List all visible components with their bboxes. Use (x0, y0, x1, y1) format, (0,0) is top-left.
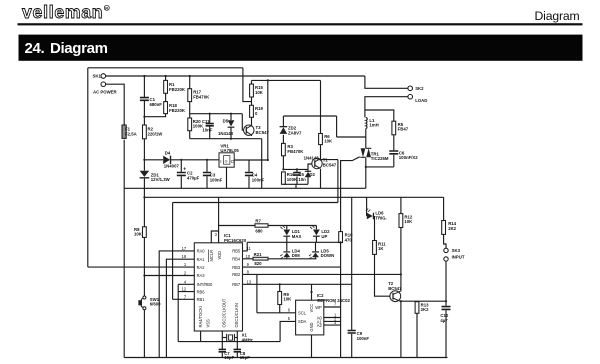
svg-text:VCC: VCC (309, 304, 314, 313)
wire: R3 bottom to base tie (282, 156, 284, 170)
junction C1 top on live wire (143, 75, 145, 77)
svg-text:+: + (183, 166, 186, 172)
wire: long bottom link y341.6 (178, 341, 280, 343)
wire: x340.6 vertical lower (340, 267, 342, 357)
junction R17 top on live wire (189, 75, 191, 77)
capacitor C9 plates (348, 331, 356, 334)
junction IC2 VCC riser (310, 291, 312, 293)
wire: R17 feed from top (189, 76, 191, 89)
svg-text:SK3: SK3 (452, 248, 461, 253)
wire: RB2 wire to T2 collector (243, 273, 401, 275)
svg-text:10: 10 (246, 254, 251, 259)
svg-text:680nF: 680nF (150, 102, 163, 107)
wire: neutral line y80.4 (252, 79, 321, 81)
resistor R14 (442, 221, 446, 235)
resistor R7 horizontal (255, 224, 268, 227)
wire: VDD rail y202.5 (173, 202, 338, 204)
wire: LD5 column (315, 242, 317, 258)
wire: snubber bottom tie y166.9 (366, 166, 394, 168)
svg-text:D4: D4 (165, 151, 171, 156)
svg-text:220/1W: 220/1W (148, 132, 164, 137)
wire: L1 bottom to TR1 (365, 129, 367, 149)
wire: C9 vertical (351, 197, 353, 329)
wire: RB6 stub (178, 291, 194, 293)
svg-text:F2,5A: F2,5A (125, 132, 137, 137)
wire: C3 riser (206, 160, 208, 172)
wire: C9 bottom (351, 334, 353, 358)
svg-text:SCL: SCL (298, 311, 307, 316)
svg-text:470: 470 (345, 237, 353, 242)
wire: R6 feed (320, 80, 322, 133)
junction +5 rail left end (143, 196, 145, 198)
svg-text:100nF: 100nF (252, 177, 265, 182)
svg-text:11: 11 (247, 246, 252, 251)
svg-text:D2: D2 (309, 172, 315, 177)
svg-text:6/600: 6/600 (150, 302, 161, 307)
capacitor C2 plates (177, 173, 186, 176)
wire: R14 feed (443, 197, 445, 220)
capacitor C6 plates (389, 151, 398, 154)
resistor R3 (282, 143, 286, 155)
resistor R8 (143, 227, 147, 238)
svg-text:18: 18 (182, 254, 187, 259)
svg-text:PIC16C620: PIC16C620 (224, 238, 247, 243)
wire: RA3 wire (144, 275, 194, 277)
junction T1 collector node (319, 159, 321, 161)
wire: ZD2 top tie y116 (283, 115, 336, 117)
wire: LD6 feed (366, 197, 368, 216)
junction +5 riser top (267, 79, 269, 81)
svg-text:RB4: RB4 (232, 257, 241, 262)
wire: supply wire y159.8 R2 node to VR1 in (144, 159, 163, 161)
wire: INT-RB6 tie and drop (177, 284, 179, 341)
capacitor C8 plates (234, 349, 241, 351)
wire: +5 rail y197.3 (144, 196, 443, 198)
svg-text:UA78L05: UA78L05 (220, 148, 239, 153)
svg-text:G: G (225, 159, 228, 163)
wire: LD1 column (286, 226, 288, 243)
wire: LED middle rail (247, 241, 340, 243)
wire: D5 top (230, 114, 232, 121)
svg-text:100K: 100K (287, 177, 298, 182)
wire: C11 bottom (209, 126, 211, 139)
capacitor C1 plates (140, 98, 149, 101)
junction R1 top on live wire (165, 75, 167, 77)
junction D5 top (230, 113, 232, 115)
svg-text:Diagram: Diagram (535, 9, 580, 23)
wire: ZD2 tie drop x336.6 (336, 116, 338, 137)
resistor R21 horizontal (253, 257, 268, 260)
wire: SW1 to bottom rail (143, 310, 145, 358)
junction C1/R18 tie (143, 116, 145, 118)
svg-text:100nF/X2: 100nF/X2 (399, 155, 418, 160)
velleman logo (22, 2, 109, 22)
wire: loop down to T3 collector node (243, 68, 252, 102)
wire: C5 bottom stub (296, 177, 298, 185)
wire: R7 wire y225.5 (219, 225, 255, 227)
wire: IC2 GND stub (311, 335, 313, 358)
junction D5 bottom on pulse rail (230, 138, 232, 140)
LED LD5 symbol (312, 253, 319, 258)
wire: IC2 VCC stub (311, 284, 313, 300)
junction RB2 wire at T2 collector (400, 273, 402, 275)
wire: tie C1/R18 y116.7 (144, 114, 165, 117)
svg-text:velleman: velleman (22, 2, 103, 22)
wire: WP stub (324, 306, 341, 308)
wire: T1 base tap (308, 164, 312, 169)
wire: ZD1 bottom to rail (143, 178, 145, 189)
wire: OSC1 line (236, 331, 238, 349)
junction RA3 tap on R8 line (143, 274, 145, 276)
wire: R5 to C6 (393, 135, 395, 151)
wire: RA1 wire (166, 259, 194, 357)
wire: R9 to SCL (279, 305, 281, 313)
wire: C3 bottom (206, 176, 208, 188)
resistor R17 (188, 89, 192, 102)
svg-text:RA1: RA1 (197, 257, 206, 262)
zener ZD1 symbol (140, 171, 150, 177)
junction C5 top (296, 168, 298, 170)
resistor R19 (250, 105, 254, 117)
svg-text:FB470K: FB470K (287, 149, 304, 154)
svg-text:1N4148: 1N4148 (304, 155, 320, 160)
wire: outer sense loop top (88, 67, 243, 69)
wire: RB1 pull vertical x172.6 (172, 203, 174, 300)
resistor R12 (399, 214, 403, 228)
svg-text:MAX: MAX (292, 234, 302, 239)
capacitor C4 plates (245, 173, 253, 176)
wire: R15 top stub (251, 80, 253, 84)
svg-text:FB220K: FB220K (169, 108, 186, 113)
wire: OSC1 below C8 (236, 353, 238, 358)
wire: C10 bottom (445, 310, 447, 357)
svg-text:680: 680 (255, 228, 263, 233)
resistor R15 (250, 84, 254, 97)
wire: A0 stub (324, 317, 341, 319)
svg-text:10K: 10K (324, 139, 333, 144)
inductor L1 coil (366, 117, 367, 128)
capacitor C5 plates (293, 173, 300, 176)
wire: top live wire y76 SK1 to corner (106, 75, 365, 77)
resistor R1 (164, 80, 168, 93)
svg-text:INPUT: INPUT (452, 255, 465, 260)
wire: T1 collector riser to VDD rail (337, 160, 339, 203)
wire: crystal right link (235, 337, 237, 339)
svg-text:UP: UP (321, 234, 327, 239)
capacitor C7 plates (219, 349, 226, 351)
diode D4 symbol (163, 156, 170, 164)
svg-text:RB7: RB7 (232, 282, 241, 287)
svg-text:12V/1.3W: 12V/1.3W (151, 177, 171, 182)
wire: ZD2 to R3 (282, 135, 284, 144)
wire: A1 stub (324, 320, 341, 322)
wire: C11 top (209, 114, 211, 123)
svg-text:SK2: SK2 (415, 86, 424, 91)
wire: SDA wire (280, 321, 296, 341)
svg-text:1mH: 1mH (369, 123, 378, 128)
svg-text:100nF: 100nF (357, 336, 370, 341)
svg-text:INT/RB0: INT/RB0 (197, 282, 213, 287)
wire: TR1 MT1 leg to common rail (365, 167, 367, 188)
wire: RA4 stub (200, 331, 202, 342)
svg-text:1K: 1K (378, 246, 384, 251)
junction C10 top / SK3 (445, 300, 447, 302)
svg-text:OSC2/CLKOUT: OSC2/CLKOUT (222, 298, 227, 327)
svg-text:DOWN: DOWN (321, 253, 335, 258)
svg-text:SK1: SK1 (93, 74, 102, 79)
svg-text:O: O (231, 159, 235, 164)
connector LOAD pin (408, 94, 413, 99)
wire: R14 to SK3 (444, 234, 446, 248)
junction TR1 MT1 node (365, 166, 367, 168)
svg-text:WP: WP (315, 305, 322, 310)
IC2 box (296, 300, 324, 335)
svg-text:15pF: 15pF (240, 355, 250, 360)
wire: R9 drop from RB7 wire (279, 284, 281, 291)
svg-text:24.: 24. (25, 40, 45, 57)
wire: D4 cathode to VR1 (171, 159, 220, 161)
wire: VDD drop (218, 197, 220, 243)
wire: bottom rail (124, 357, 447, 359)
LED LD1 symbol (283, 230, 290, 236)
wire: VR1 ground pin (226, 167, 228, 188)
wire: +5 rail tap from R8 line (143, 188, 145, 227)
wire: R1 top stub (165, 76, 167, 80)
wire: R17 to R20 (189, 102, 191, 118)
resistor R16 (282, 172, 286, 184)
svg-text:BC547: BC547 (256, 130, 270, 135)
wire: SCL wire (257, 312, 296, 314)
wire: group bottom tie y184.3 (283, 183, 308, 185)
svg-text:RB1: RB1 (197, 297, 206, 302)
header rule (18, 23, 583, 25)
svg-text:AC POWER: AC POWER (93, 90, 118, 95)
wire: TR1 MT2 down (365, 158, 367, 167)
wire: R20 bottom to pulse rail (189, 131, 191, 139)
wire: SK1 lower pin to F1 (106, 84, 125, 125)
svg-text:10K: 10K (134, 232, 143, 237)
junction T2 emitter / input node (400, 300, 402, 302)
svg-text:10nF: 10nF (202, 127, 212, 132)
wire: R11 to T2 base (375, 254, 391, 296)
wire: A2 stub (324, 324, 341, 326)
svg-text:SDA: SDA (298, 319, 307, 324)
resistor R18 (164, 102, 168, 114)
svg-text:4MHz: 4MHz (242, 337, 253, 342)
wire: outer sense loop left vertical (87, 68, 89, 267)
svg-text:10K: 10K (283, 297, 292, 302)
junction VR1 output node (267, 159, 269, 161)
svg-text:TRIG.: TRIG. (375, 215, 386, 220)
svg-text:2K2: 2K2 (448, 226, 456, 231)
wire: R12 to T2 collector (400, 228, 402, 292)
wire: T1 emitter to rail (320, 169, 322, 189)
svg-text:RB3: RB3 (232, 265, 241, 270)
capacitor C10 plates (442, 307, 451, 310)
connector SK3 pin 1 (444, 248, 448, 252)
svg-text:10K: 10K (404, 219, 413, 224)
wire: OSC2 below C7 (221, 353, 223, 358)
svg-text:R21: R21 (254, 252, 262, 257)
wire: C6 bottom (393, 155, 395, 167)
section black bar (19, 35, 583, 61)
svg-text:RB6: RB6 (197, 289, 206, 294)
svg-text:LOAD: LOAD (415, 98, 427, 103)
svg-text:RA2: RA2 (197, 265, 206, 270)
transistor T2 (390, 291, 401, 302)
wire: pulse rail y138.7 (190, 138, 262, 140)
svg-text:RB5: RB5 (232, 249, 241, 254)
resistor R11 (373, 241, 377, 255)
svg-text:1N4007: 1N4007 (164, 164, 180, 169)
svg-text:FB47: FB47 (398, 127, 409, 132)
svg-text:RA4/TOCKI: RA4/TOCKI (198, 306, 203, 328)
triac TR1 symbol (361, 148, 366, 157)
wire: OSC2 line (221, 331, 223, 349)
wire: F1 bottom to common rail and bottom rail (123, 140, 125, 358)
svg-text:A2: A2 (317, 323, 323, 328)
svg-text:BC547: BC547 (323, 162, 337, 167)
wire: C4 bottom (248, 176, 250, 188)
svg-text:4µ7: 4µ7 (440, 318, 448, 323)
connector SK3 pin 2 (444, 257, 448, 261)
resistor R5 (392, 121, 396, 135)
wire: RB7 / +5 dist wire y284 (243, 283, 352, 285)
svg-text:R: R (105, 6, 108, 11)
LED LD2 symbol (313, 230, 320, 236)
svg-text:470µF: 470µF (187, 175, 200, 180)
capacitor C11 plates (206, 124, 214, 126)
crystal X1 (227, 334, 235, 341)
wire: C5 top stub (296, 169, 298, 172)
wire: R15-R19 link (251, 97, 253, 105)
junction C11 top (209, 113, 211, 115)
wire: LD4 column (286, 242, 288, 258)
regulator VR1 box (219, 153, 234, 167)
wire: R13 bottom (416, 313, 418, 357)
wire: LED top rail (268, 225, 316, 227)
junction D4 anode node (143, 159, 145, 161)
wire: pulse rail drop to common (261, 139, 263, 189)
svg-text:I: I (220, 159, 221, 164)
diode D2 symbol (305, 172, 311, 177)
svg-text:RA3: RA3 (197, 273, 206, 278)
wire: RB3 wire (243, 266, 341, 268)
wire: R13 top stub (416, 300, 418, 303)
wire: T2 emitter to rail (400, 301, 402, 357)
wire: C10 drop (445, 301, 447, 306)
junction R3/R16 base tie (282, 168, 284, 170)
wire: RB5 jog to LED middle rail (243, 242, 248, 251)
svg-text:10K: 10K (255, 90, 264, 95)
wire: gate wire (341, 157, 360, 232)
svg-text:TIC226M: TIC226M (371, 156, 389, 161)
wire: RB4 to R21 (243, 258, 254, 260)
diode D5 symbol (228, 120, 235, 126)
LED LD6 symbol (367, 213, 373, 220)
wire: R6 to T1 collector (320, 145, 322, 159)
wire: LOAD wire (365, 97, 408, 122)
svg-text:12: 12 (182, 287, 187, 292)
wire: D2 top stub (307, 169, 309, 171)
wire: R16 bottom stub (282, 183, 284, 185)
wire: D2 bottom stub (307, 177, 309, 184)
wire: VR1 output to +5 drop (234, 159, 268, 161)
wire: D5 bottom (230, 127, 232, 139)
wire: C2 bottom (180, 176, 182, 188)
wire: R8 to RA3 node to SW1 (143, 237, 145, 295)
resistor R10 (339, 232, 343, 243)
wire: C2 riser (180, 160, 182, 172)
svg-text:MCLR: MCLR (209, 250, 214, 262)
wire: SK3 lower to input node (445, 261, 447, 301)
svg-text:BC547: BC547 (388, 286, 402, 291)
svg-text:D5: D5 (223, 118, 229, 123)
wire: RA2 wire to outer loop (88, 266, 195, 268)
resistor R9 (278, 292, 282, 305)
svg-text:820: 820 (254, 261, 262, 266)
wire: tie to TR1 MT2 line y137 (337, 136, 366, 138)
wire: R2 bottom to ZD1 (143, 139, 145, 171)
wire: RB1 wire (173, 298, 195, 300)
LED LD4 symbol (283, 253, 290, 258)
svg-text:Diagram: Diagram (50, 40, 108, 57)
junction R9 top on RB7 wire (279, 283, 281, 285)
wire: INT/RB0 stub (178, 283, 194, 285)
svg-text:RA0: RA0 (197, 249, 206, 254)
switch SW1 pushbutton (139, 296, 146, 310)
svg-text:FB220K: FB220K (169, 87, 186, 92)
wire: corner down to SK2 (365, 76, 408, 88)
wire: x340.6 vertical mid (340, 243, 342, 268)
junction LED middle rail / R10 (340, 241, 342, 243)
svg-text:VDD: VDD (217, 251, 222, 260)
svg-text:2K2: 2K2 (421, 307, 429, 312)
wire: C1 bottom to R2 top (143, 101, 145, 126)
zener ZD2 symbol (280, 127, 288, 134)
svg-text:RB2: RB2 (232, 272, 241, 277)
wire: load branch down to L1 (364, 110, 366, 117)
IC1 box (194, 243, 242, 331)
transistor T3 (244, 124, 254, 136)
capacitor C3 plates (203, 173, 211, 176)
resistor R20 (188, 118, 192, 131)
wire: C4 riser (248, 160, 250, 172)
resistor R13 (415, 302, 419, 314)
wire: MCLR jog (211, 231, 218, 243)
svg-text:17: 17 (182, 246, 187, 251)
wire: R19 bottom to T3 collector (251, 117, 253, 126)
svg-text:VSS: VSS (206, 319, 211, 327)
svg-text:13: 13 (247, 279, 252, 284)
junction C2 tap (180, 159, 182, 161)
connector SK1 pin 1 (101, 74, 106, 79)
svg-text:R7: R7 (255, 218, 261, 223)
svg-text:1N4148: 1N4148 (218, 131, 234, 136)
wire: LD6 to R11 (374, 216, 376, 241)
svg-text:FB470K: FB470K (193, 94, 210, 99)
connector SK1 pin 2 (101, 82, 106, 87)
resistor R2 (143, 125, 147, 139)
wire: RA0 wire (159, 251, 194, 358)
svg-text:15pF: 15pF (224, 355, 234, 360)
wire: C1 top feed (143, 76, 145, 97)
wire: base tie y169.4 (283, 168, 308, 170)
wire: T3 base drop (242, 114, 244, 130)
wire: T1 collector tie y159.6 (321, 159, 338, 161)
connector SK2 pin (408, 86, 413, 91)
fuse F1 (122, 125, 126, 138)
